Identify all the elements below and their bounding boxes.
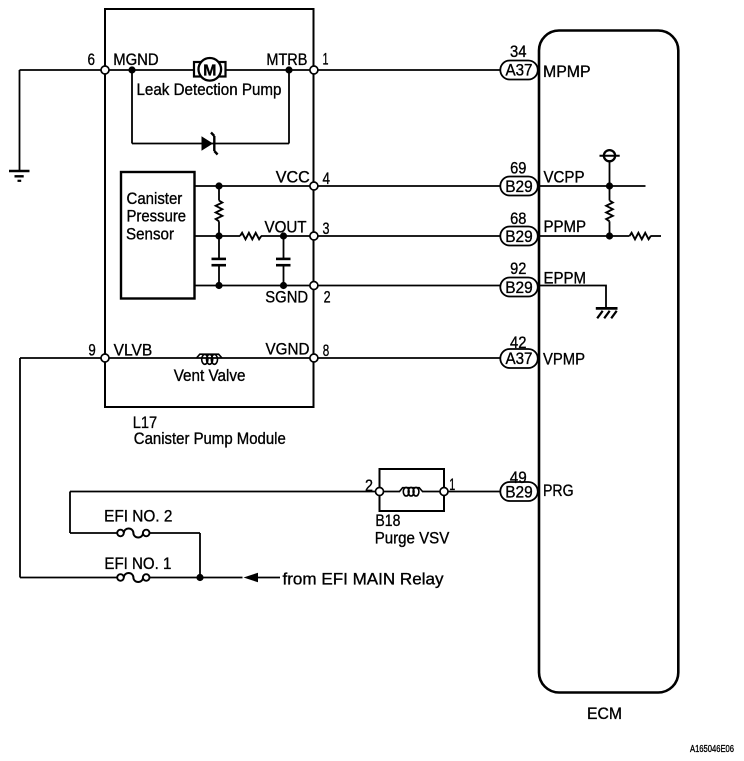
wire: VCC to ECM pin VCPP <box>314 185 501 187</box>
arrow from EFI MAIN relay <box>244 573 259 583</box>
svg-text:34: 34 <box>510 42 527 61</box>
svg-text:Canister: Canister <box>127 189 183 208</box>
wire: SGND row <box>195 285 314 287</box>
svg-text:49: 49 <box>510 468 527 487</box>
svg-text:9: 9 <box>88 341 95 360</box>
wire: vent valve row inside module <box>105 357 314 359</box>
ground G1 (earth ground) <box>9 171 30 181</box>
capacitor C2 <box>276 236 291 286</box>
svg-text:VCPP: VCPP <box>544 167 585 186</box>
power symbol (battery feed) inside ECM <box>600 150 620 186</box>
svg-text:VLVB: VLVB <box>114 341 153 360</box>
wire: feed drop to EFI NO.1 row <box>19 358 21 578</box>
fuse F2 EFI NO. 2 <box>117 529 149 538</box>
wire: diode branch right vertical <box>288 70 290 144</box>
ECM box <box>539 31 678 693</box>
capacitor C1 <box>212 236 227 286</box>
pin B29-92 EPPM <box>500 259 538 297</box>
wire: EFI NO.2 row <box>70 532 117 534</box>
wire: purge feed horizontal to VSV <box>70 491 380 493</box>
svg-text:PPMP: PPMP <box>544 217 587 236</box>
terminal 8 VGND <box>310 354 318 362</box>
junction dot at MTRB branch <box>285 66 292 73</box>
svg-text:VPMP: VPMP <box>543 350 585 369</box>
svg-text:6: 6 <box>88 50 96 69</box>
module box: Canister Pump Module <box>105 9 314 407</box>
svg-text:Canister Pump Module: Canister Pump Module <box>134 429 286 448</box>
pin A37-42 VPMP <box>500 333 538 368</box>
svg-text:69: 69 <box>510 159 526 178</box>
junction dot VOUT/C2 <box>280 232 287 239</box>
wire: arrow tail <box>258 577 280 579</box>
svg-text:Pressure: Pressure <box>127 207 187 226</box>
svg-text:B29: B29 <box>505 278 533 297</box>
junction dot PPMP internal <box>606 232 613 239</box>
wire: VCPP internal <box>540 185 646 187</box>
resistor R2 (VOUT series) <box>240 233 261 240</box>
svg-text:42: 42 <box>510 333 527 352</box>
junction dot SGND/C2 <box>280 282 287 289</box>
svg-text:Leak Detection Pump: Leak Detection Pump <box>137 80 282 99</box>
pin B29-68 PPMP <box>500 209 538 246</box>
svg-text:SGND: SGND <box>265 288 308 307</box>
svg-text:MTRB: MTRB <box>266 50 307 69</box>
terminal 2 SGND <box>310 282 318 290</box>
svg-text:A37: A37 <box>506 61 533 80</box>
svg-text:MGND: MGND <box>113 50 159 69</box>
terminal 3 VOUT <box>310 232 318 240</box>
wire: EFI NO.2 drop to EFI NO.1 row <box>199 533 201 578</box>
terminal 9 VLVB <box>101 354 109 362</box>
svg-text:Purge VSV: Purge VSV <box>375 529 450 548</box>
wire: MGND-MTRB row inside module <box>105 69 314 71</box>
wire: MGND to left ground <box>20 69 106 71</box>
diode D1 <box>202 133 218 155</box>
svg-text:8: 8 <box>323 341 330 360</box>
svg-text:92: 92 <box>510 259 526 278</box>
wire: VOUT row left segment <box>195 235 240 237</box>
wire: VGND to ECM pin VPMP <box>314 357 501 359</box>
pin B29-49 PRG <box>500 468 538 502</box>
wire: VCC row <box>195 185 314 187</box>
inductor L-vent (vent valve coil) <box>197 354 223 364</box>
svg-text:VOUT: VOUT <box>265 218 307 237</box>
svg-text:1: 1 <box>323 50 329 69</box>
terminal 1 MTRB <box>310 66 318 74</box>
svg-text:MPMP: MPMP <box>543 62 591 81</box>
svg-text:68: 68 <box>510 209 526 228</box>
junction dot SGND/C1 <box>215 282 222 289</box>
wire: VOUT to ECM pin PPMP <box>314 235 501 237</box>
junction dot EFI rows <box>196 574 203 581</box>
wire: left ground drop <box>19 70 21 171</box>
terminal 4 VCC <box>310 182 318 190</box>
wire: VSV terminal 2 to coil <box>380 491 401 493</box>
svg-text:EFI NO. 1: EFI NO. 1 <box>104 554 171 573</box>
svg-text:B18: B18 <box>375 511 400 530</box>
pin A37-34 MPMP <box>500 42 538 80</box>
junction dot VCC/R1 <box>215 182 222 189</box>
svg-text:1: 1 <box>449 475 455 494</box>
wire: SGND to ECM pin EPPM <box>314 285 501 287</box>
resistor R3 (ECM pull-up, vertical) <box>606 186 613 236</box>
junction dot VOUT/R1/C1 <box>215 232 222 239</box>
terminal 6 MGND <box>101 66 109 74</box>
svg-text:M: M <box>203 62 216 79</box>
wire: EPPM internal <box>540 286 606 308</box>
motor M1 (leak detection pump) <box>194 58 226 81</box>
svg-text:VGND: VGND <box>266 340 310 359</box>
svg-text:2: 2 <box>324 288 331 307</box>
wire: VOUT row right segment <box>261 235 314 237</box>
fuse F1 EFI NO. 1 <box>117 573 149 582</box>
svg-text:VCC: VCC <box>276 167 310 186</box>
terminal VSV 2 <box>376 488 384 496</box>
inductor L-vsv (purge VSV coil) <box>400 487 423 496</box>
wire: diode branch bottom <box>132 143 289 145</box>
resistor R1 (sensor pull-up, vertical) <box>216 186 223 236</box>
chassis ground inside ECM <box>596 308 618 318</box>
svg-text:4: 4 <box>323 169 331 188</box>
wire: purge feed drop <box>69 492 71 534</box>
svg-text:3: 3 <box>323 219 330 238</box>
sensor box: Canister Pressure Sensor <box>121 172 195 299</box>
svg-text:PRG: PRG <box>543 481 574 500</box>
wire: VSV to ECM pin PRG <box>444 491 500 493</box>
wire: diode branch left vertical <box>131 70 133 144</box>
wire: PPMP internal <box>540 235 630 237</box>
svg-text:Sensor: Sensor <box>126 225 174 244</box>
wire: coil to VSV terminal 1 <box>422 491 444 493</box>
svg-text:Vent Valve: Vent Valve <box>174 366 246 385</box>
purge VSV box B18 <box>380 469 445 511</box>
wire: PPMP internal right stub <box>651 235 662 237</box>
terminal VSV 1 <box>440 488 448 496</box>
wire: MTRB to ECM pin MPMP <box>314 69 501 71</box>
resistor R4 (ECM series, horizontal) <box>630 233 651 240</box>
pin B29-69 VCPP <box>500 159 538 196</box>
svg-text:2: 2 <box>365 476 373 495</box>
svg-text:A165046E06: A165046E06 <box>690 744 734 755</box>
wire: VLVB left to feed line <box>20 357 105 359</box>
svg-text:from EFI MAIN Relay: from EFI MAIN Relay <box>283 570 444 589</box>
svg-text:EFI NO. 2: EFI NO. 2 <box>104 507 172 526</box>
svg-text:B29: B29 <box>505 177 533 196</box>
junction dot VCPP internal <box>606 182 613 189</box>
svg-text:ECM: ECM <box>587 704 622 723</box>
junction dot at MGND branch <box>128 66 135 73</box>
svg-text:B29: B29 <box>505 227 533 246</box>
wire: EFI NO.1 row <box>20 577 117 579</box>
